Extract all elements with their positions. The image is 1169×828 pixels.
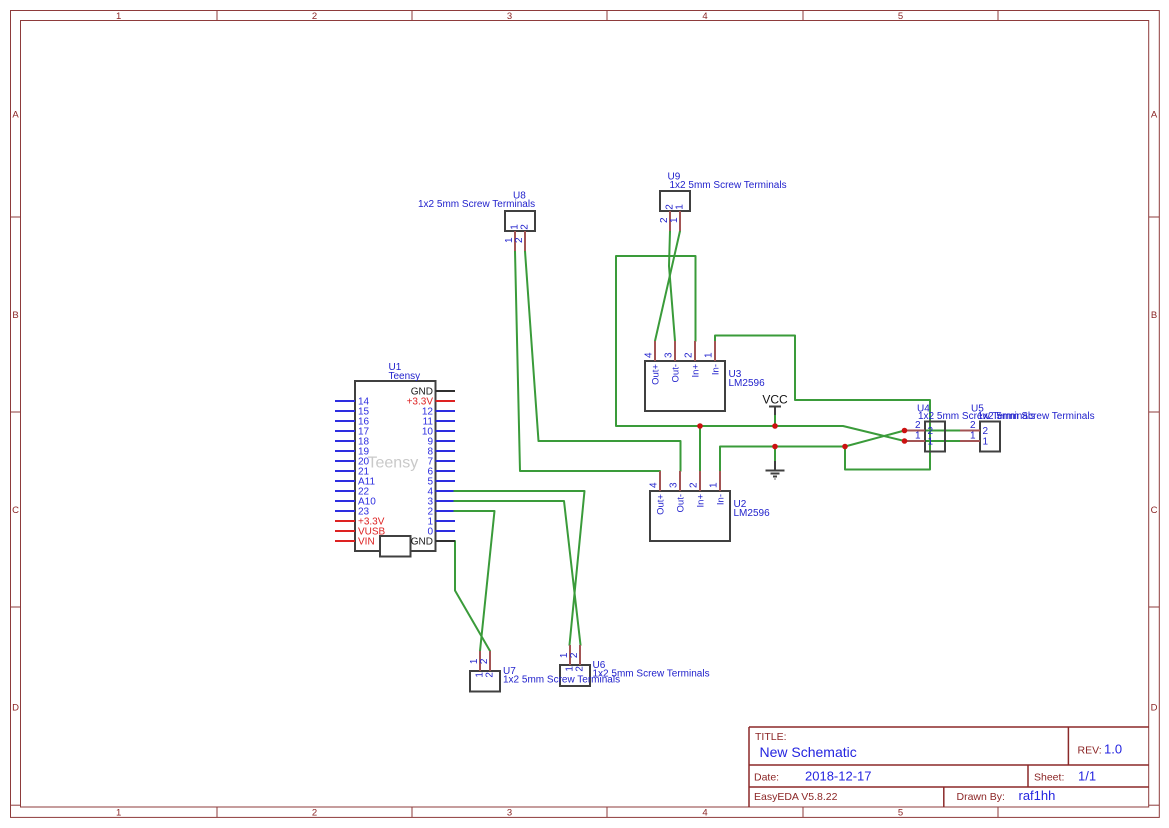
svg-text:Out+: Out+ [656, 494, 667, 515]
wire Teensy pin3 to U6.2 [454, 501, 581, 645]
svg-text:1: 1 [704, 352, 715, 358]
svg-text:4: 4 [649, 482, 660, 488]
svg-text:Date:: Date: [754, 772, 779, 784]
svg-text:4: 4 [644, 352, 655, 358]
svg-text:Teensy: Teensy [389, 371, 421, 382]
junction U4 pin1 [902, 438, 908, 444]
wire GND loop to U3 In- [715, 336, 930, 470]
terminal U7 body [470, 666, 620, 692]
svg-text:In+: In+ [696, 494, 707, 508]
wire U9.1 to U3 Out+ [655, 231, 680, 341]
svg-text:In-: In- [716, 494, 727, 505]
regulator U2 body [650, 491, 770, 541]
svg-text:D: D [12, 703, 19, 714]
svg-text:New Schematic: New Schematic [760, 744, 857, 760]
wire U8.1 to U2 Out+ [515, 251, 660, 471]
terminal U6 body [560, 660, 710, 686]
U3 pin numbers [644, 352, 715, 358]
svg-text:1: 1 [983, 437, 989, 448]
frame column numbers top [116, 11, 903, 22]
svg-text:B: B [1151, 310, 1157, 321]
U9 pin leads [670, 211, 680, 231]
wire Teensy pin2 to U7.1 [454, 511, 495, 651]
svg-text:2: 2 [479, 658, 490, 664]
teensy U1 right pins [436, 391, 456, 541]
junction ground [772, 444, 778, 450]
svg-text:1: 1 [116, 808, 121, 819]
wire U9.2 to U3 Out- [669, 231, 675, 341]
svg-text:1: 1 [709, 482, 720, 488]
U2 pin names [656, 494, 727, 515]
svg-text:2: 2 [514, 237, 525, 243]
svg-text:LM2596: LM2596 [734, 508, 771, 519]
teensy U1 left pin names [358, 397, 386, 548]
frame column numbers bottom [116, 808, 903, 819]
wire VCC branch to U2 In+ [699, 426, 701, 471]
U6 pin leads [570, 645, 580, 665]
teensy U1 body [355, 362, 436, 557]
svg-text:TITLE:: TITLE: [755, 731, 787, 743]
U6 pin numbers [559, 652, 586, 672]
svg-text:2: 2 [983, 426, 989, 437]
U3 pin leads [655, 341, 715, 361]
svg-text:REV:: REV: [1078, 745, 1102, 757]
svg-text:5: 5 [898, 11, 903, 22]
U4 pin numbers [915, 420, 934, 448]
U8 pin leads [515, 231, 525, 251]
svg-text:VIN: VIN [358, 537, 375, 548]
wire GND net [720, 431, 905, 472]
junction U4 pin2 [902, 428, 908, 434]
svg-text:1x2 5mm Screw Terminals: 1x2 5mm Screw Terminals [670, 180, 787, 191]
svg-text:4: 4 [702, 11, 707, 22]
svg-text:2018-12-17: 2018-12-17 [805, 769, 872, 784]
svg-text:3: 3 [507, 11, 512, 22]
svg-text:A: A [12, 110, 19, 121]
svg-text:2: 2 [915, 420, 921, 431]
wire U8.2 to U2 Out- [525, 251, 681, 471]
svg-text:In-: In- [711, 364, 722, 375]
svg-text:1: 1 [915, 431, 921, 442]
svg-text:B: B [12, 310, 18, 321]
wire Teensy GND to U7.2 [455, 541, 490, 651]
wire U4 pin1 row [905, 440, 961, 442]
svg-text:C: C [1151, 505, 1158, 516]
ground symbol [766, 461, 785, 479]
svg-text:3: 3 [664, 352, 675, 358]
svg-text:3: 3 [507, 808, 512, 819]
svg-text:2: 2 [689, 482, 700, 488]
U3 pin names [651, 364, 722, 385]
svg-text:Out+: Out+ [651, 364, 662, 385]
svg-text:EasyEDA V5.8.22: EasyEDA V5.8.22 [754, 791, 838, 803]
svg-text:2: 2 [928, 426, 934, 437]
regulator U3 body [645, 361, 765, 411]
U7 pin numbers [469, 658, 496, 678]
U5 pin leads [960, 431, 980, 442]
terminal U9 body [660, 172, 787, 212]
U4 pin leads [905, 431, 926, 442]
svg-text:1x2 5mm Screw Terminals: 1x2 5mm Screw Terminals [978, 411, 1095, 422]
wire ground symbol stub [774, 447, 776, 462]
svg-text:D: D [1151, 703, 1158, 714]
svg-text:raf1hh: raf1hh [1019, 788, 1056, 803]
svg-text:2: 2 [312, 808, 317, 819]
svg-text:2: 2 [312, 11, 317, 22]
terminal U4 body [917, 404, 1035, 452]
terminal U8 body [418, 191, 535, 232]
junction VCC [772, 423, 778, 429]
terminal U5 body [971, 404, 1095, 452]
svg-text:1/1: 1/1 [1078, 769, 1096, 784]
svg-text:Out-: Out- [671, 364, 682, 382]
svg-text:2: 2 [569, 652, 580, 658]
svg-text:3: 3 [669, 482, 680, 488]
U9 pin numbers [659, 204, 686, 223]
U2 pin numbers [649, 482, 720, 488]
svg-text:C: C [12, 505, 19, 516]
title block [749, 727, 1149, 807]
svg-text:1x2 5mm Screw Terminals: 1x2 5mm Screw Terminals [503, 675, 620, 686]
svg-text:GND: GND [411, 537, 433, 548]
svg-text:Teensy: Teensy [368, 455, 419, 472]
svg-text:2: 2 [575, 666, 586, 672]
wire Teensy pin4 to U6.1 [454, 491, 585, 645]
svg-text:In+: In+ [691, 364, 702, 378]
svg-text:1: 1 [116, 11, 121, 22]
wire VCC net [616, 256, 905, 441]
svg-text:1: 1 [669, 217, 680, 223]
svg-text:1: 1 [675, 204, 686, 210]
svg-text:Drawn By:: Drawn By: [957, 791, 1005, 803]
svg-text:LM2596: LM2596 [729, 378, 766, 389]
VCC symbol [762, 393, 788, 416]
wire U4 pin2 row [905, 430, 961, 432]
svg-text:2: 2 [485, 672, 496, 678]
U7 pin leads [480, 651, 490, 671]
junction gnd branch [842, 444, 848, 450]
U8 pin numbers [504, 224, 531, 243]
svg-text:1: 1 [970, 431, 976, 442]
svg-text:Sheet:: Sheet: [1034, 772, 1064, 784]
U5 pin numbers [970, 420, 989, 448]
title block texts [754, 731, 1122, 803]
svg-text:5: 5 [898, 808, 903, 819]
svg-text:Out-: Out- [676, 494, 687, 512]
U2 pin leads [660, 471, 720, 491]
frame row letters left [12, 110, 19, 714]
svg-text:1.0: 1.0 [1104, 742, 1122, 757]
wire VCC symbol stub [774, 414, 776, 426]
svg-text:A: A [1151, 110, 1158, 121]
junction U2 In+ [697, 423, 703, 429]
svg-text:2: 2 [684, 352, 695, 358]
svg-text:2: 2 [970, 420, 976, 431]
svg-text:2: 2 [520, 224, 531, 230]
svg-text:1: 1 [928, 437, 934, 448]
frame row letters right [1151, 110, 1158, 714]
svg-text:VCC: VCC [762, 393, 788, 407]
svg-text:1x2 5mm Screw Terminals: 1x2 5mm Screw Terminals [418, 199, 535, 210]
teensy U1 right pin names [407, 387, 434, 548]
svg-text:4: 4 [702, 808, 707, 819]
teensy U1 left pins [335, 401, 355, 541]
